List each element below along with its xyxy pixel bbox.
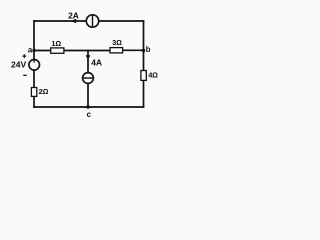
node c — [86, 105, 89, 108]
resistor R1 1ohm — [51, 48, 64, 53]
wire right rail lower — [143, 80, 145, 107]
current source U2 4A — [83, 73, 94, 84]
current source U1 2A — [86, 15, 98, 27]
svg-text:24V: 24V — [11, 59, 26, 69]
svg-text:3Ω: 3Ω — [112, 38, 122, 47]
svg-text:a: a — [28, 45, 33, 54]
svg-text:1Ω: 1Ω — [51, 39, 61, 48]
wire bottom — [34, 106, 144, 108]
wire middle center — [64, 50, 110, 52]
node a — [32, 49, 35, 52]
minus sign — [23, 74, 27, 76]
arrow 4A direction — [86, 55, 91, 60]
wire 4A branch upper — [87, 51, 89, 73]
wire middle right — [123, 49, 144, 51]
wire left rail upper — [33, 21, 35, 60]
wire top-right segment — [99, 20, 144, 22]
wire 4A branch lower — [87, 83, 89, 107]
voltage source V1 24V — [29, 60, 40, 71]
resistor R4 4ohm — [141, 71, 146, 81]
svg-text:2A: 2A — [68, 11, 79, 21]
svg-text:2Ω: 2Ω — [39, 87, 49, 96]
wire middle left — [34, 50, 51, 52]
wire left rail between source and 2-ohm — [33, 70, 35, 88]
resistor R2 3ohm — [110, 48, 123, 53]
wire right rail upper — [143, 21, 145, 71]
svg-text:4Ω: 4Ω — [148, 71, 158, 80]
wire left rail lower — [33, 96, 35, 107]
node b — [142, 49, 145, 52]
wire top-left segment — [34, 20, 86, 22]
svg-text:4A: 4A — [91, 58, 102, 68]
svg-text:b: b — [146, 45, 151, 54]
plus sign — [22, 54, 26, 58]
resistor R3 2ohm — [31, 88, 36, 97]
svg-text:c: c — [87, 110, 92, 119]
arrow 2A direction — [71, 19, 77, 24]
